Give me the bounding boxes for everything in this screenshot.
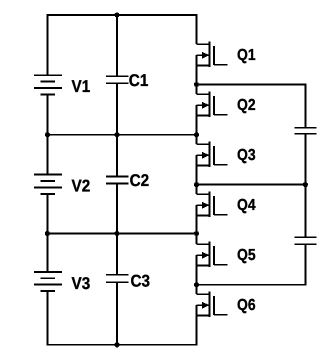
C5 bottom plate	[294, 243, 316, 245]
svg-text:C1: C1	[129, 71, 149, 90]
wire C1 top	[116, 15, 118, 76]
wire mid rail 2 (V2/V3 to Q4/Q5 node)	[47, 233, 196, 235]
V1 short plate 2	[41, 81, 56, 83]
junction mid rail 1 / V column	[45, 132, 50, 137]
transistor Q3 channel bar	[209, 142, 211, 167]
wire mid rail 1 (V1/V2 to Q2/Q3 node)	[47, 134, 196, 136]
wire Q4 source to mid rail 2	[196, 216, 198, 234]
transistor Q3 gate bar	[213, 146, 215, 165]
junction mid rail 1 / C column	[114, 132, 119, 137]
wire Q4 gate lead	[214, 214, 228, 216]
V2 short plate 2	[41, 180, 56, 182]
svg-text:Q5: Q5	[237, 247, 256, 264]
V1 long plate 1	[34, 74, 62, 76]
junction node B (Q3/Q4)	[194, 182, 199, 187]
wire Q6 source to bottom rail	[196, 316, 198, 345]
wire Q1 gate lead	[214, 64, 228, 66]
wire V3 negative to bottom rail	[46, 291, 48, 345]
wire Q5 source to node C	[196, 266, 198, 285]
wire Q5 drain lead	[197, 243, 210, 245]
wire node B to right column	[197, 184, 306, 186]
wire Q6 source lead	[197, 315, 210, 317]
wire node A to right column	[197, 84, 306, 86]
junction mid rail 2 / V column	[45, 231, 50, 236]
svg-text:C2: C2	[130, 171, 150, 190]
transistor Q5	[197, 242, 256, 267]
wire Q4 source lead	[197, 215, 210, 217]
wire Q3 source lead	[197, 165, 210, 167]
V3 long plate 1	[34, 271, 62, 273]
svg-text:V2: V2	[72, 177, 91, 196]
voltage source V3	[34, 272, 90, 293]
V2 long plate 1	[34, 174, 62, 176]
transistor Q2	[197, 92, 256, 117]
junction node A (Q1/Q2)	[194, 82, 199, 87]
transistor Q2 gate bar	[213, 96, 215, 115]
wire V3 positive to mid rail 2	[46, 234, 48, 273]
transistor Q3 body arrow	[197, 154, 205, 156]
wire Q3 gate lead	[214, 164, 228, 166]
capacitor C1	[106, 71, 148, 90]
wire mid rail 1 to Q3 drain	[196, 135, 198, 145]
wire Q2 source lead	[197, 115, 210, 117]
wire Q1 drain lead	[197, 43, 210, 45]
voltage source V1	[34, 75, 90, 96]
wire Q2 gate lead	[214, 114, 228, 116]
voltage source V2	[34, 175, 90, 196]
svg-text:Q4: Q4	[237, 197, 256, 214]
transistor Q2 channel bar	[209, 92, 211, 117]
wire Q3 drain lead	[197, 143, 210, 145]
transistor Q6 channel bar	[209, 292, 211, 317]
wire top rail drop to Q1 drain	[196, 15, 198, 44]
C3 bottom plate	[106, 281, 128, 283]
wire Q1 source to node A	[196, 66, 198, 85]
wire Q3 body-source link	[196, 155, 198, 165]
wire Q6 body-source link	[196, 305, 198, 315]
C1 bottom plate	[106, 82, 128, 84]
C2 bottom plate	[106, 182, 128, 184]
junction node C (Q5/Q6)	[194, 282, 199, 287]
transistor Q2 body arrow	[197, 104, 205, 106]
transistor Q1 body arrow	[197, 54, 205, 56]
transistor Q1 channel bar	[209, 42, 211, 67]
C5 top plate	[294, 236, 316, 238]
transistor Q1	[197, 42, 256, 67]
transistor Q4 gate bar	[213, 196, 215, 215]
capacitor C3	[106, 271, 150, 290]
wire node C to Q6 drain	[196, 285, 198, 295]
transistor Q5 gate bar	[213, 246, 215, 265]
transistor Q6	[197, 292, 256, 317]
transistor Q4	[197, 192, 256, 217]
svg-text:V1: V1	[72, 77, 91, 96]
transistor Q1 gate bar	[213, 46, 215, 65]
svg-text:Q6: Q6	[237, 297, 256, 314]
wire C2 bottom to mid rail 2	[116, 183, 118, 233]
wire Q6 drain lead	[197, 293, 210, 295]
wire Q4 body-source link	[196, 205, 198, 215]
wire C2 top to mid rail 1	[116, 135, 118, 177]
capacitor C5 (flying, bottom right)	[294, 237, 316, 244]
V1 short plate 4	[41, 94, 56, 96]
wire V2 negative to mid rail 2	[46, 194, 48, 234]
wire top rail	[47, 14, 198, 16]
junction node B / right column	[303, 182, 308, 187]
wire flying cap 1 to node B branch	[304, 134, 306, 185]
svg-text:V3: V3	[72, 274, 91, 293]
wire bottom rail	[47, 344, 198, 346]
transistor Q4 channel bar	[209, 192, 211, 217]
C4 bottom plate	[294, 133, 316, 135]
junction mid rail 2 / C column	[114, 231, 119, 236]
wire Q3 source to node B	[196, 166, 198, 185]
wire node C branch	[197, 284, 307, 286]
wire Q1 body-source link	[196, 55, 198, 65]
wire Q5 source lead	[197, 265, 210, 267]
transistor Q6 gate bar	[213, 296, 215, 315]
V2 short plate 4	[41, 193, 56, 195]
svg-text:C3: C3	[131, 271, 151, 290]
wire Q1 source lead	[197, 65, 210, 67]
transistor Q5 channel bar	[209, 242, 211, 267]
svg-text:Q2: Q2	[237, 97, 256, 114]
C3 top plate	[106, 274, 128, 276]
wire right column down to flying cap 1	[304, 84, 306, 128]
capacitor C4 (flying, top right)	[294, 128, 316, 134]
C1 top plate	[106, 75, 128, 77]
junction mid rail 2 / Q column	[194, 231, 199, 236]
wire Q2 source to mid rail 1	[196, 116, 198, 135]
V2 long plate 3	[34, 186, 62, 188]
V3 short plate 2	[41, 277, 56, 279]
transistor Q6 body arrow	[197, 304, 205, 306]
wire Q4 drain lead	[197, 193, 210, 195]
junction mid rail 1 / Q column	[194, 132, 199, 137]
wire Q2 drain lead	[197, 93, 210, 95]
wire Q6 gate lead	[214, 314, 228, 316]
svg-text:Q3: Q3	[237, 147, 256, 164]
wire Q2 body-source link	[196, 105, 198, 115]
svg-text:Q1: Q1	[237, 47, 256, 64]
wire V1 positive terminal to top rail	[46, 15, 48, 75]
wire flying cap 2 to node C corner	[304, 244, 306, 285]
wire V1 negative to mid rail 1	[46, 95, 48, 135]
capacitor C2	[106, 171, 149, 190]
V3 long plate 3	[34, 284, 62, 286]
transistor Q4 body arrow	[197, 204, 205, 206]
V1 long plate 3	[34, 87, 62, 89]
junction bottom rail / C column	[114, 342, 119, 347]
transistor Q3	[197, 142, 256, 167]
wire C3 top to mid rail 2	[116, 234, 118, 275]
C2 top plate	[106, 175, 128, 177]
wire C1 bottom to mid rail 1	[116, 83, 118, 135]
wire V2 positive to mid rail 1	[46, 135, 48, 175]
V3 short plate 4	[41, 290, 56, 292]
wire C3 bottom to bottom rail	[116, 282, 118, 345]
wire node A to Q2 drain	[196, 85, 198, 95]
junction top rail / C1	[114, 12, 119, 17]
wire Q5 gate lead	[214, 264, 228, 266]
transistor Q5 body arrow	[197, 254, 205, 256]
wire node B to Q4 drain	[196, 185, 198, 195]
C4 top plate	[294, 127, 316, 129]
wire Q5 body-source link	[196, 255, 198, 265]
wire mid rail 2 to Q5 drain	[196, 234, 198, 245]
wire right column down to flying cap 2	[304, 185, 306, 238]
